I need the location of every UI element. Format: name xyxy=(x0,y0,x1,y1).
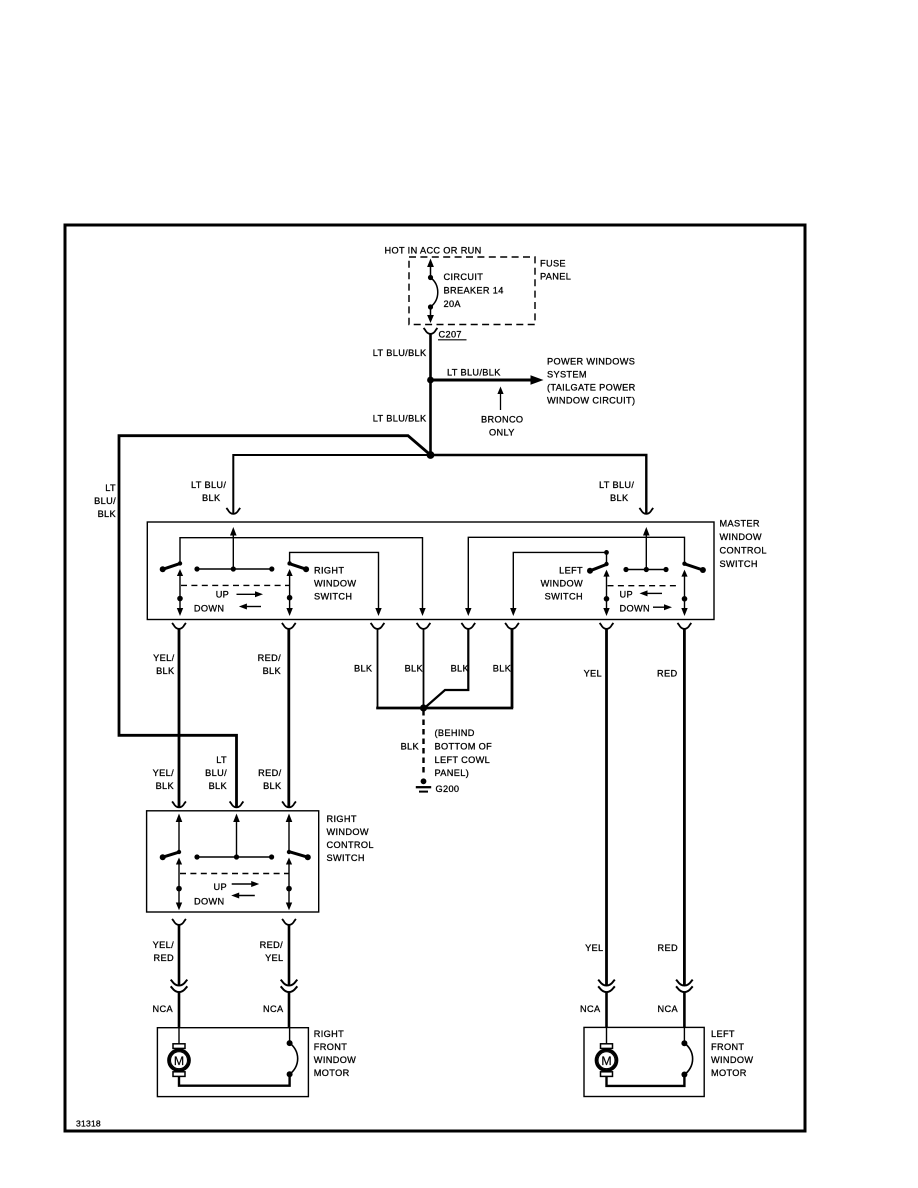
svg-text:G200: G200 xyxy=(436,784,460,794)
svg-text:WINDOW CIRCUIT): WINDOW CIRCUIT) xyxy=(547,396,635,406)
wire control lever1 throw to exit xyxy=(176,858,182,865)
svg-text:MASTER: MASTER xyxy=(720,519,760,529)
svg-text:LT BLU/: LT BLU/ xyxy=(599,480,634,490)
wire lever1 to exit elbow xyxy=(180,538,423,609)
wire into motor M2 xyxy=(606,1027,608,1043)
wire motor M1 return loop xyxy=(179,1074,290,1086)
svg-text:UP: UP xyxy=(216,589,229,599)
svg-text:BLU/: BLU/ xyxy=(205,768,227,778)
svg-text:BLK: BLK xyxy=(405,664,424,674)
svg-text:RED/: RED/ xyxy=(260,940,283,950)
svg-text:DOWN: DOWN xyxy=(194,604,225,614)
svg-text:WINDOW: WINDOW xyxy=(314,1055,356,1065)
svg-text:31318: 31318 xyxy=(76,1119,101,1129)
right front window motor box xyxy=(157,1028,308,1097)
svg-text:RED/: RED/ xyxy=(258,653,281,663)
wire branch arrow to power windows system xyxy=(431,379,533,382)
dashed gang line control switch xyxy=(180,873,289,875)
wire control lever2 throw to exit xyxy=(286,858,292,865)
wire into motor M2 brush xyxy=(683,1027,685,1043)
svg-text:LT: LT xyxy=(216,755,227,765)
motor M2 xyxy=(596,1044,617,1077)
connector C207 xyxy=(424,328,438,334)
wire lever2 throw to RED/BLK exit xyxy=(287,569,293,576)
wire BLK pin5 to ground junction xyxy=(425,630,469,709)
svg-text:PANEL): PANEL) xyxy=(435,768,470,778)
connector below master pin5 xyxy=(461,623,475,629)
wire RED/BLK master to control switch xyxy=(287,630,290,808)
connector below master pin3 xyxy=(371,623,385,629)
svg-text:SYSTEM: SYSTEM xyxy=(547,370,587,380)
svg-text:NCA: NCA xyxy=(153,1004,174,1014)
svg-text:(TAILGATE POWER: (TAILGATE POWER xyxy=(547,383,636,393)
svg-text:YEL: YEL xyxy=(265,953,283,963)
pin terminal arrow control pin2 xyxy=(233,814,240,823)
svg-text:BLK: BLK xyxy=(493,664,512,674)
wire NCA to right motor 2 xyxy=(288,993,291,1028)
wire lever2L throw to RED exit xyxy=(681,570,687,577)
svg-text:RED: RED xyxy=(657,669,677,679)
wire YEL/BLK master to control switch xyxy=(178,630,181,808)
wire lever2 to BLK exit elbow xyxy=(290,552,379,608)
wire lever1 throw to YEL/BLK exit xyxy=(177,569,183,576)
switch lever right window down-contact xyxy=(288,563,306,569)
node ground junction xyxy=(420,704,427,711)
svg-text:YEL/: YEL/ xyxy=(153,653,174,663)
connector below control pin2 xyxy=(282,919,296,925)
wire NCA to right motor 1 xyxy=(178,993,181,1028)
right window control switch box xyxy=(147,811,319,912)
svg-text:SWITCH: SWITCH xyxy=(545,592,583,602)
connector below master pin2 xyxy=(282,623,296,629)
svg-text:LT BLU/BLK: LT BLU/BLK xyxy=(447,368,501,378)
border frame xyxy=(65,225,805,1131)
svg-text:RIGHT: RIGHT xyxy=(327,814,357,824)
svg-text:SWITCH: SWITCH xyxy=(327,853,365,863)
svg-text:20A: 20A xyxy=(444,299,462,309)
svg-text:BLK: BLK xyxy=(354,664,373,674)
dashed gang line left window switch xyxy=(608,585,679,587)
master window control switch box xyxy=(147,522,714,620)
svg-text:NCA: NCA xyxy=(263,1004,284,1014)
wire BLK pin3 to ground junction xyxy=(377,630,379,709)
pin terminal arrow left feed xyxy=(232,534,234,569)
node main junction xyxy=(427,451,435,459)
motor M1 xyxy=(169,1044,190,1077)
svg-text:WINDOW: WINDOW xyxy=(711,1055,753,1065)
svg-text:UP: UP xyxy=(214,882,227,892)
connector below master pin8 xyxy=(678,623,692,629)
wire lever1L to BLK exit elbow xyxy=(513,552,606,608)
svg-text:C207: C207 xyxy=(439,330,462,340)
svg-text:LEFT: LEFT xyxy=(711,1029,735,1039)
svg-text:UP: UP xyxy=(620,589,633,599)
svg-text:BREAKER 14: BREAKER 14 xyxy=(444,286,504,296)
wire YEL master to left motor xyxy=(605,630,608,986)
inline connector NCA left motor feed 2 xyxy=(676,980,693,993)
svg-text:YEL: YEL xyxy=(585,943,603,953)
svg-text:BRONCO: BRONCO xyxy=(481,415,523,425)
svg-text:YEL: YEL xyxy=(584,669,602,679)
svg-text:BOTTOM OF: BOTTOM OF xyxy=(435,741,493,751)
svg-text:WINDOW: WINDOW xyxy=(314,578,356,588)
wire left rail LT BLU/BLK to right window control switch xyxy=(119,436,431,807)
svg-text:LEFT: LEFT xyxy=(559,565,583,575)
svg-text:LT: LT xyxy=(105,483,116,493)
svg-text:DOWN: DOWN xyxy=(194,897,225,907)
connector below master pin4 xyxy=(417,623,431,629)
wire BLK pin6 to ground junction xyxy=(511,630,514,709)
svg-text:CIRCUIT: CIRCUIT xyxy=(444,272,484,282)
switch lever right window up-contact xyxy=(163,563,181,569)
circuit breaker 14 20A xyxy=(427,259,438,324)
svg-text:BLK: BLK xyxy=(610,493,629,503)
svg-text:BLK: BLK xyxy=(156,781,175,791)
svg-text:WINDOW: WINDOW xyxy=(720,532,762,542)
contact row control switch xyxy=(197,856,272,858)
svg-text:FUSE: FUSE xyxy=(540,259,566,269)
wire RED master to left motor xyxy=(683,630,686,986)
svg-text:CONTROL: CONTROL xyxy=(327,840,374,850)
svg-text:FRONT: FRONT xyxy=(314,1042,347,1052)
inline connector NCA left motor feed 1 xyxy=(598,980,615,993)
pin terminal arrow control pin1 xyxy=(176,814,183,823)
svg-text:ONLY: ONLY xyxy=(489,428,515,438)
svg-text:LT BLU/BLK: LT BLU/BLK xyxy=(373,348,427,358)
svg-text:BLK: BLK xyxy=(156,666,175,676)
wire BLK dashed to ground xyxy=(422,710,424,775)
wire motor M2 return loop xyxy=(607,1075,685,1086)
wire YEL/RED control to right motor xyxy=(178,926,181,986)
motor M2 brush contacts xyxy=(681,1040,687,1046)
svg-text:RED: RED xyxy=(658,943,678,953)
connector into control switch pin1 xyxy=(172,801,186,807)
svg-text:PANEL: PANEL xyxy=(540,272,571,282)
motor M1 brush contacts xyxy=(287,1040,293,1046)
pin terminal arrow control pin3 xyxy=(286,814,293,823)
switch lever left window down-contact xyxy=(684,564,703,570)
svg-text:BLU/: BLU/ xyxy=(94,496,116,506)
svg-text:RIGHT: RIGHT xyxy=(314,1029,344,1039)
switch lever control up-contact xyxy=(163,852,180,857)
svg-text:LT BLU/BLK: LT BLU/BLK xyxy=(373,414,427,424)
connector below control pin1 xyxy=(172,919,186,925)
wire LT BLU/BLK from C207 down xyxy=(429,334,432,455)
switch lever left window up-contact xyxy=(590,564,608,571)
connector into master switch left xyxy=(226,508,240,514)
svg-text:YEL/: YEL/ xyxy=(153,768,174,778)
connector into control switch pin3 xyxy=(282,801,296,807)
wire NCA to left motor 1 xyxy=(605,993,608,1028)
svg-text:BLK: BLK xyxy=(209,781,228,791)
svg-text:RED: RED xyxy=(154,953,174,963)
svg-text:BLK: BLK xyxy=(451,664,470,674)
svg-text:MOTOR: MOTOR xyxy=(314,1068,350,1078)
pin terminal arrow right feed xyxy=(645,534,647,569)
wire thin feed to master switch left half xyxy=(233,455,430,514)
connector into control switch pin2 xyxy=(230,801,244,807)
left front window motor box xyxy=(584,1027,704,1096)
contact row right window switch xyxy=(197,568,272,570)
switch lever control down-contact xyxy=(290,852,308,857)
svg-text:SWITCH: SWITCH xyxy=(314,592,352,602)
connector below master pin7 xyxy=(600,623,614,629)
svg-text:M: M xyxy=(601,1054,611,1068)
svg-text:BLK: BLK xyxy=(98,509,117,519)
svg-text:BLK: BLK xyxy=(202,493,221,503)
svg-text:NCA: NCA xyxy=(658,1004,679,1014)
svg-text:SWITCH: SWITCH xyxy=(720,559,758,569)
svg-text:LEFT COWL: LEFT COWL xyxy=(435,755,491,765)
wire lever2L to BLK exit elbow xyxy=(468,537,684,609)
svg-text:(BEHIND: (BEHIND xyxy=(435,728,475,738)
wire BLK pin4 to ground junction xyxy=(423,630,425,709)
connector into master switch right xyxy=(639,508,653,514)
svg-text:LT BLU/: LT BLU/ xyxy=(191,480,226,490)
dashed gang line right window switch xyxy=(181,584,290,586)
inline connector NCA right motor feed 1 xyxy=(171,980,188,993)
wire feed to master switch right half xyxy=(431,455,647,514)
svg-text:HOT IN ACC OR RUN: HOT IN ACC OR RUN xyxy=(385,246,482,256)
wire NCA to left motor 2 xyxy=(683,993,686,1028)
ground G200 xyxy=(421,778,427,784)
svg-text:RIGHT: RIGHT xyxy=(314,565,344,575)
svg-text:BLK: BLK xyxy=(401,742,420,752)
wire RED/YEL control to right motor xyxy=(288,926,291,986)
fuse panel dashed box xyxy=(409,257,535,325)
svg-text:WINDOW: WINDOW xyxy=(541,578,583,588)
svg-text:BLK: BLK xyxy=(263,666,282,676)
connector below master pin1 xyxy=(172,623,186,629)
svg-text:RED/: RED/ xyxy=(258,768,281,778)
wire into motor M1 xyxy=(178,1028,180,1044)
inline connector NCA right motor feed 2 xyxy=(281,980,298,993)
BRONCO ONLY note arrow xyxy=(500,393,502,411)
svg-text:DOWN: DOWN xyxy=(620,604,651,614)
svg-text:YEL/: YEL/ xyxy=(153,940,174,950)
svg-text:WINDOW: WINDOW xyxy=(327,827,369,837)
wire into motor M1 brush xyxy=(289,1028,291,1043)
svg-text:FRONT: FRONT xyxy=(711,1042,744,1052)
svg-text:CONTROL: CONTROL xyxy=(720,546,767,556)
svg-text:MOTOR: MOTOR xyxy=(711,1068,747,1078)
contact row left window switch xyxy=(626,569,666,571)
connector below master pin6 xyxy=(505,623,519,629)
svg-text:BLK: BLK xyxy=(263,781,282,791)
node junction to tailgate branch xyxy=(427,377,434,384)
svg-text:M: M xyxy=(174,1054,184,1068)
svg-text:POWER WINDOWS: POWER WINDOWS xyxy=(547,357,635,367)
wire lever1L throw to YEL exit xyxy=(603,570,609,577)
svg-text:NCA: NCA xyxy=(580,1004,601,1014)
